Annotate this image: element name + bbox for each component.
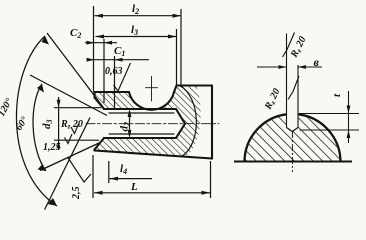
bottom: face ext (92, 155, 94, 198)
left face (93, 92, 95, 151)
upper 60 line (30, 75, 107, 116)
t dim line (348, 91, 350, 143)
d2 dim line (129, 111, 131, 136)
bottom: l4 ext (108, 161, 110, 183)
b dim lines (257, 66, 322, 68)
l3 extension right (176, 29, 178, 85)
upper 120 line (47, 33, 103, 107)
dome outline (245, 114, 341, 161)
arrows (37, 14, 210, 206)
d2 arrows (128, 109, 132, 117)
Rz tick lower (288, 76, 299, 100)
face extension line up (93, 6, 95, 92)
Rz20 tick (71, 124, 79, 134)
roughness ticks left view (65, 63, 131, 182)
centerline below slot (291, 131, 293, 172)
slot bottom V (287, 128, 299, 132)
part outline (95, 86, 213, 159)
step to right top edge (174, 86, 212, 93)
svg-text:1,25: 1,25 (43, 142, 61, 153)
l4 arrow (110, 177, 119, 181)
left view: shaft end section (86, 77, 219, 159)
hatch region left view (95, 86, 201, 156)
l2 dim line (95, 15, 182, 17)
labels left view (0, 3, 139, 200)
lower 60 line (40, 143, 99, 171)
C1 arrows outside (87, 58, 95, 62)
d3 dim (58, 97, 60, 150)
svg-text:0,63: 0,63 (105, 66, 123, 77)
C1 dim line (87, 59, 149, 61)
right edge (211, 86, 213, 159)
l3 arrows (96, 35, 105, 39)
120 arc arrows (42, 36, 50, 45)
0,63 tick (114, 63, 131, 91)
svg-text:Rz 20: Rz 20 (60, 119, 83, 131)
bottom edge (95, 151, 213, 159)
C2 dim line (85, 42, 117, 44)
axis centerline left view (86, 123, 219, 125)
L arrows (94, 191, 103, 195)
fan lines (16, 33, 107, 210)
hole thick outline (104, 109, 185, 138)
svg-text:L: L (130, 181, 138, 193)
l4 dim line (110, 178, 153, 180)
120 arc (16, 36, 57, 206)
d3 arrows (57, 100, 61, 108)
t arrows (347, 106, 351, 114)
slot walls (287, 34, 299, 128)
svg-text:2,5: 2,5 (71, 187, 82, 201)
t extension lines (299, 114, 359, 131)
thread thin lines (109, 113, 174, 134)
b arrows (279, 65, 287, 69)
L dim line (94, 192, 210, 194)
chamfer mouth (95, 98, 105, 150)
break curve (180, 86, 197, 157)
Rz tick upper (283, 33, 295, 58)
top edge with scoop (95, 91, 130, 93)
60 arc (33, 84, 46, 171)
dome fill (245, 114, 341, 161)
1,25 tick (65, 134, 73, 144)
60 arc arrows (37, 84, 44, 93)
dimension system left view (54, 6, 211, 198)
2,5 tick (68, 157, 92, 182)
baseline (234, 161, 352, 163)
C2 arrows outside (87, 41, 95, 45)
bottom: right ext (210, 161, 212, 198)
l2 arrows (95, 14, 104, 18)
C2/C1 extension lines (104, 39, 115, 110)
l3 dim line (96, 36, 177, 38)
svg-text:в: в (314, 55, 320, 69)
scoop center cross (146, 77, 158, 102)
l2 extension right (180, 9, 182, 85)
scoop arc (129, 92, 174, 110)
lower 120 line (45, 118, 90, 210)
